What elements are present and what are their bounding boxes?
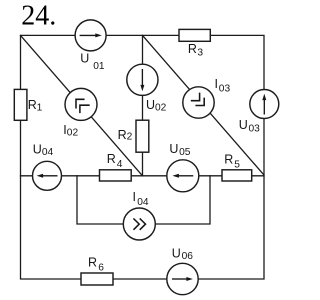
svg-text:2: 2	[127, 131, 133, 142]
svg-text:R: R	[224, 153, 233, 167]
svg-text:U: U	[80, 52, 89, 66]
svg-text:R: R	[118, 128, 127, 142]
svg-text:6: 6	[98, 262, 104, 273]
svg-text:U: U	[239, 118, 248, 132]
svg-text:1: 1	[37, 103, 43, 114]
svg-text:03: 03	[249, 123, 261, 134]
svg-text:3: 3	[197, 48, 203, 59]
svg-text:04: 04	[42, 147, 54, 158]
svg-text:I: I	[215, 77, 218, 91]
svg-text:03: 03	[219, 84, 231, 95]
svg-text:05: 05	[179, 147, 191, 158]
svg-text:U: U	[146, 98, 155, 112]
svg-text:R: R	[88, 256, 97, 270]
svg-text:R: R	[28, 98, 37, 112]
svg-text:U: U	[169, 142, 178, 156]
svg-text:02: 02	[67, 127, 79, 138]
svg-text:R: R	[107, 152, 116, 166]
svg-text:4: 4	[117, 159, 123, 170]
svg-text:24.: 24.	[21, 1, 56, 32]
svg-text:01: 01	[93, 61, 105, 72]
svg-text:U: U	[172, 247, 181, 261]
svg-text:5: 5	[234, 160, 240, 171]
svg-text:R: R	[188, 42, 197, 56]
svg-text:06: 06	[182, 251, 194, 262]
svg-text:U: U	[33, 143, 42, 157]
svg-text:04: 04	[137, 197, 149, 208]
svg-text:02: 02	[155, 102, 167, 113]
svg-text:I: I	[133, 190, 136, 204]
